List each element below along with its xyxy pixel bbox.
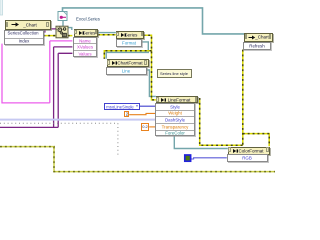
input mark Index	[4, 40, 6, 42]
invoke node _Chart (Refresh)	[244, 33, 273, 42]
wire: error dashed LineFormat right side down and across to ColorFormat	[200, 50, 270, 147]
wire: error cluster dashed chart node to conversion icon to Series node	[43, 35, 72, 37]
wire: error dashed Series to Series format node	[98, 34, 116, 36]
left edge partial control	[0, 0, 3, 15]
wire: teal Line output down to LineFormat node ref in	[146, 70, 156, 96]
wire: grey dotted from left edge turning down	[0, 123, 118, 156]
color box constant green	[185, 155, 191, 161]
wire: error dashed Series format down to ChartFormat and LineFormat	[104, 35, 156, 100]
output mark SeriesCollection	[41, 31, 43, 33]
wire: automation refnum teal from Excel.Series icon top across to _Chart refresh node	[63, 8, 245, 34]
output marks Series1 right	[94, 40, 96, 42]
wire: orange 0.2 constant to Transparency	[149, 126, 156, 128]
property node LineFormat (Style/Weight/DashStyle/Transparency/ForeColor)	[156, 96, 199, 103]
property node _Chart (SeriesCollection/Index)	[5, 20, 51, 30]
property node ColorFormat (RGB)	[228, 147, 271, 155]
free label Excel.Series	[76, 17, 100, 21]
wire: blue enum to Style	[140, 105, 156, 107]
wire layer	[0, 0, 275, 183]
wire: teal ForeColor output down to ColorFormat node ref in	[174, 136, 228, 149]
property node ChartFormat (Line)	[107, 59, 149, 68]
wire: pink string loop into Name	[2, 41, 72, 103]
numeric constant 0.2	[141, 123, 149, 131]
wire: teal Series node to Series format node	[98, 32, 116, 34]
wire: teal conversion icon to Series property node ref in	[68, 28, 72, 30]
output dot ForeColor	[192, 132, 194, 134]
input triangle RGB	[227, 157, 230, 159]
wire: teal Excel.Series icon down to class conversion icon	[62, 20, 64, 27]
wire: lavender from left edge to DashStyle	[0, 119, 156, 121]
output dot Format	[140, 41, 142, 43]
free label Series line style	[157, 69, 192, 78]
wire: error dashed bottom left from edge down and across bottom	[0, 147, 275, 172]
numeric constant 2	[124, 111, 130, 117]
enum constant msoLineSingle	[104, 103, 140, 110]
input terminal triangles Series1	[73, 40, 75, 55]
Excel.Series class refnum icon	[58, 12, 67, 21]
output dot Line	[145, 71, 147, 73]
property node Series (Name/XValues/Values)	[74, 29, 99, 37]
wire: purple SeriesCollection to conversion icon	[43, 29, 56, 32]
wire: orange 2 constant to Weight	[129, 113, 156, 114]
property node Series (Format)	[116, 31, 144, 39]
class conversion icon with gears	[56, 26, 68, 38]
wire: teal Format output loop to ChartFormat node	[106, 42, 148, 59]
input terminal triangles LineFormat	[156, 105, 158, 134]
wire: purple variant pair from left edge up into XValues and Values	[0, 47, 72, 128]
wire: blue color box to RGB	[191, 158, 227, 159]
